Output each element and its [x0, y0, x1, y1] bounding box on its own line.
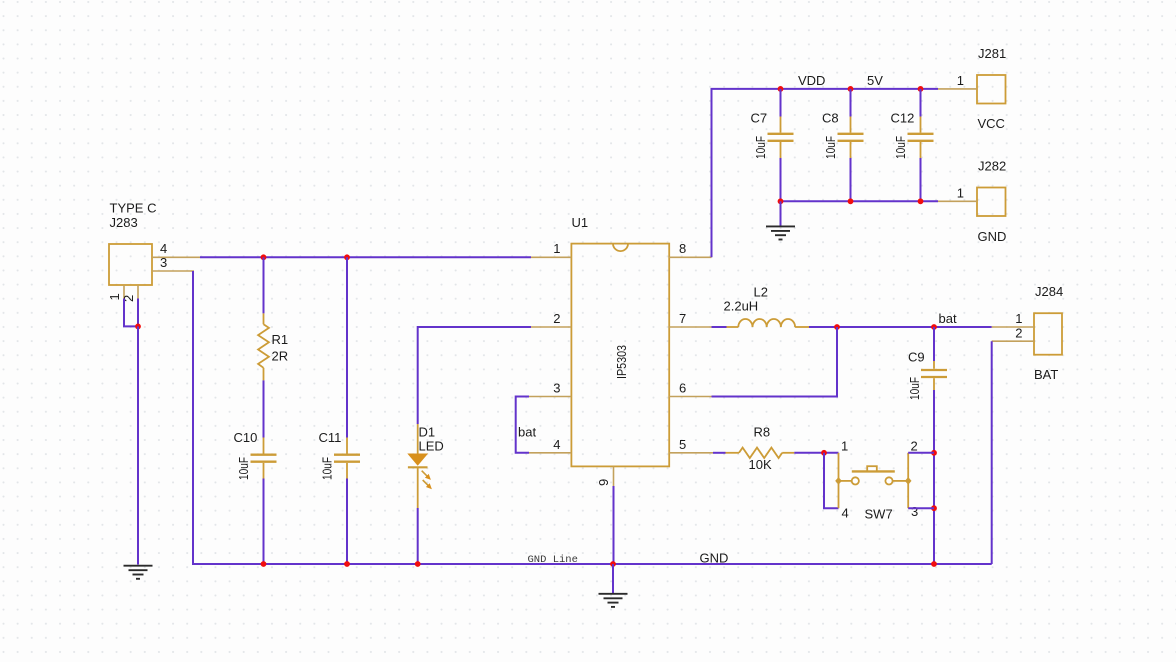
junction C8 top [848, 86, 854, 92]
svg-text:10uF: 10uF [907, 377, 922, 400]
svg-text:bat: bat [518, 425, 536, 440]
svg-text:1: 1 [957, 186, 964, 201]
svg-text:TYPE C: TYPE C [110, 201, 157, 216]
junction J283 gnd [135, 324, 141, 330]
junction C9 bus bottom [931, 561, 937, 567]
svg-text:7: 7 [679, 311, 686, 326]
U1 pin 1 stub [531, 256, 571, 258]
svg-text:C8: C8 [822, 111, 839, 126]
wire C8 bottom [850, 158, 852, 201]
svg-text:GND Line: GND Line [528, 554, 578, 566]
svg-text:2: 2 [911, 439, 918, 454]
svg-text:8: 8 [679, 241, 686, 256]
wire R1 column top [263, 257, 265, 313]
svg-text:6: 6 [679, 381, 686, 396]
capacitor C8 [838, 117, 864, 159]
wire J283 pin2 down [137, 299, 139, 327]
svg-text:BAT: BAT [1034, 367, 1058, 382]
svg-text:10K: 10K [749, 457, 772, 472]
op-amp U1 body IP5303 [571, 244, 669, 467]
wire R1 to C10 [263, 380, 265, 437]
svg-text:J284: J284 [1035, 284, 1063, 299]
wire C9 to SW column [933, 390, 935, 564]
junction L2 out [834, 324, 840, 330]
ground G3 [766, 226, 795, 239]
junction C12 top [918, 86, 924, 92]
svg-text:10uF: 10uF [753, 136, 768, 159]
U1 pin 6 stub [669, 396, 711, 398]
svg-text:J283: J283 [110, 215, 138, 230]
svg-text:2.2uH: 2.2uH [724, 299, 759, 314]
wire C12 column [920, 89, 922, 117]
inductor L2 [727, 319, 810, 327]
wire stub below junction [612, 564, 614, 593]
svg-text:C7: C7 [751, 111, 768, 126]
J283 pin 2 stub [137, 285, 139, 299]
svg-text:1: 1 [553, 241, 560, 256]
node bat loop pins 3-4 [516, 397, 529, 453]
J281 pin 1 stub [938, 88, 977, 90]
wire J283 pin1 to junction [124, 299, 138, 327]
junction C7 top [778, 86, 784, 92]
svg-text:1: 1 [1015, 311, 1022, 326]
connector J281 VCC [977, 75, 1006, 104]
U1 pin 3 stub [529, 396, 571, 398]
svg-text:3: 3 [160, 255, 167, 270]
junction C10 bottom [261, 561, 267, 567]
wire J284 pin2 to GND bus [991, 341, 993, 564]
svg-text:VCC: VCC [978, 116, 1005, 131]
junction pin9 GND [610, 561, 616, 567]
svg-text:R1: R1 [272, 332, 289, 347]
capacitor C9 [921, 361, 947, 390]
svg-text:J281: J281 [978, 46, 1006, 61]
wire L2 to bat node [809, 326, 992, 328]
svg-text:2R: 2R [272, 349, 289, 364]
wire pin1-pin4 link [824, 453, 839, 508]
svg-text:R8: R8 [754, 425, 771, 440]
svg-text:L2: L2 [754, 285, 768, 300]
wire R8 to SW7 pin1 [794, 452, 838, 454]
svg-text:C9: C9 [908, 350, 925, 365]
svg-text:C11: C11 [319, 430, 342, 445]
junction R1 top [261, 254, 267, 260]
capacitor C11 [334, 438, 360, 479]
U1 pin 7 stub [669, 326, 711, 328]
wire C10 to GND bus [263, 479, 265, 565]
svg-text:2: 2 [553, 311, 560, 326]
wire to ground G1 [137, 326, 139, 564]
wire C7 column [780, 89, 782, 117]
J283 pin 4 stub [152, 256, 200, 258]
svg-text:1: 1 [841, 439, 848, 454]
svg-text:9: 9 [596, 479, 611, 486]
svg-text:U1: U1 [572, 215, 589, 230]
junction C8 bottom [848, 198, 854, 204]
svg-text:3: 3 [553, 381, 560, 396]
capacitor C12 [908, 117, 934, 159]
J282 pin 1 stub [938, 200, 977, 202]
wire to ground G3 [780, 201, 782, 226]
wire U1 pin8 riser to VDD bus [712, 89, 939, 257]
wire D1 to GND bus [417, 508, 419, 564]
wire caps bottom bus [781, 200, 939, 202]
switch SW7 [835, 453, 911, 508]
wire C9 column [933, 327, 935, 361]
svg-text:LED: LED [419, 439, 444, 454]
junction SW pin3 [931, 505, 937, 511]
svg-text:IP5303: IP5303 [614, 345, 629, 379]
connector J284 BAT [1034, 313, 1062, 355]
svg-text:J282: J282 [978, 159, 1006, 174]
resistor R8 [726, 448, 795, 458]
svg-text:5V: 5V [867, 73, 883, 88]
wire C12 bottom [920, 158, 922, 201]
connector J283 TYPE C [109, 244, 152, 285]
junction C9 top [931, 324, 937, 330]
svg-text:10uF: 10uF [823, 136, 838, 159]
capacitor C10 [251, 438, 277, 479]
LED D1 [407, 424, 432, 508]
svg-text:C12: C12 [891, 111, 915, 126]
J284 pin 1 stub [992, 326, 1034, 328]
wire main bus pin1 row [200, 256, 531, 258]
wire J283 pin3 down to GND bus [193, 271, 992, 564]
U1 pin 5 stub [669, 452, 713, 454]
wire U1 pin9 to GND bus [613, 486, 615, 564]
svg-text:SW7: SW7 [865, 507, 893, 522]
connector J282 GND [977, 188, 1006, 217]
junction SW pin2 [931, 450, 937, 456]
svg-text:5: 5 [679, 437, 686, 452]
resistor R1 [258, 313, 269, 380]
J283 pin 3 stub [152, 270, 194, 272]
ground G1 [124, 566, 153, 579]
U1 pin 8 stub [669, 256, 711, 258]
wire U1 pin5 to R8 [713, 452, 726, 454]
wire U1 pin7 to L2 [712, 326, 727, 328]
junction C12 bottom [918, 198, 924, 204]
svg-text:C10: C10 [234, 430, 258, 445]
ground G2 center [599, 594, 628, 607]
wire C7 bottom [780, 158, 782, 201]
junction C11 bottom [344, 561, 350, 567]
junction C11 top [344, 254, 350, 260]
svg-text:1: 1 [957, 73, 964, 88]
wire U1 pin2 to D1 [418, 327, 531, 424]
svg-text:1: 1 [107, 293, 122, 300]
svg-text:4: 4 [160, 241, 167, 256]
U1 pin 2 stub [531, 326, 571, 328]
U1 pin 9 stub [613, 466, 615, 486]
junction D1 bottom [415, 561, 421, 567]
svg-text:10uF: 10uF [893, 136, 908, 159]
U1 pin 4 stub [529, 452, 571, 454]
wire C11 column top [346, 257, 348, 437]
wire SW7 pin2 to C9 column [908, 452, 934, 454]
capacitor C7 [768, 117, 794, 159]
svg-text:2: 2 [1015, 326, 1022, 341]
J284 pin 2 stub [992, 340, 1034, 342]
wire SW7 pin3 to C9 column [908, 507, 934, 509]
svg-text:bat: bat [939, 311, 957, 326]
svg-text:4: 4 [553, 437, 560, 452]
svg-text:4: 4 [842, 506, 849, 521]
svg-text:10uF: 10uF [236, 457, 251, 480]
svg-text:3: 3 [911, 504, 918, 519]
wire C8 column [850, 89, 852, 117]
junction C7 bottom [778, 198, 784, 204]
svg-text:10uF: 10uF [320, 457, 335, 480]
wire C11 to GND bus [346, 479, 348, 565]
wire down to pin6 row [712, 327, 838, 397]
svg-text:GND: GND [978, 229, 1007, 244]
J283 pin 1 stub [123, 285, 125, 299]
junction R8 out [821, 450, 827, 456]
svg-text:GND: GND [700, 551, 729, 566]
svg-text:D1: D1 [419, 425, 436, 440]
svg-text:VDD: VDD [798, 73, 825, 88]
